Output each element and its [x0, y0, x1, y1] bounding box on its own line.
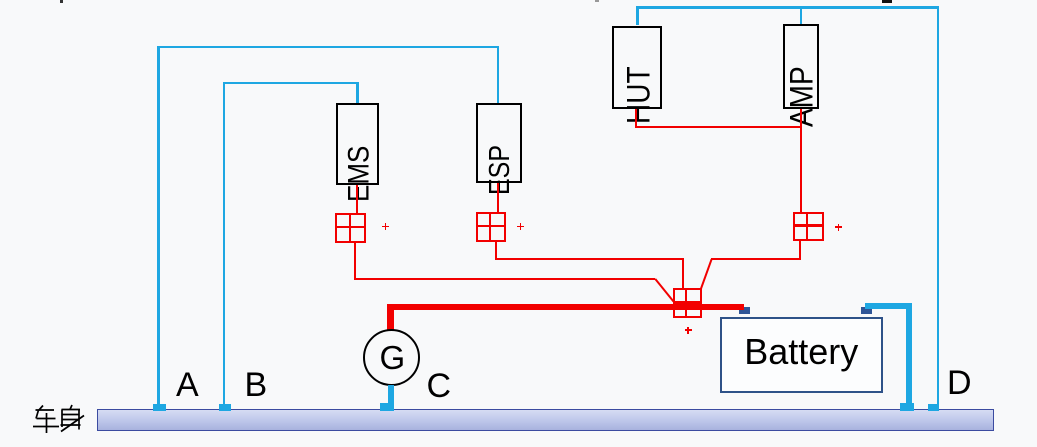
wire diagonal EMS to junction	[655, 279, 673, 302]
wire D horizontal (top bus)	[636, 6, 939, 8]
plus mark F3	[835, 224, 842, 231]
battery plus terminal	[739, 307, 750, 314]
thick red wire vertical to G	[387, 304, 394, 330]
thick cyan wire vertical	[906, 303, 913, 410]
wire F3 horizontal left	[711, 258, 801, 260]
label HUT	[623, 66, 655, 124]
wire D vertical	[937, 6, 939, 404]
wire F2 down	[495, 242, 497, 259]
ground node D pad	[928, 404, 939, 411]
wire C thick vertical	[388, 385, 394, 410]
thick cyan wire from battery minus	[865, 303, 912, 310]
junction fuse F4	[673, 288, 703, 318]
wire F2 drop to junction	[682, 258, 684, 288]
thick red wire horizontal (battery feed)	[387, 304, 744, 310]
wire riser to HUT	[636, 6, 638, 25]
label D	[947, 366, 972, 400]
plus mark F4	[685, 327, 692, 334]
plus mark F2	[517, 223, 524, 230]
fuse F2 (ESP)	[476, 212, 506, 242]
crop mark top-left	[60, 0, 63, 3]
wire HUT to AMP horizontal	[635, 126, 801, 128]
wire B vertical	[223, 82, 225, 405]
crop mark top-middle	[595, 0, 599, 2]
plus mark F1	[382, 223, 389, 230]
box ESP	[476, 103, 522, 183]
box AMP	[783, 24, 820, 109]
battery box	[720, 317, 883, 393]
chassis bar (car body)	[97, 409, 994, 431]
fuse F1 (EMS)	[335, 213, 367, 243]
wire B horizontal	[223, 82, 359, 84]
wire A drop to ESP	[497, 46, 499, 103]
label EMS	[343, 146, 373, 202]
label Battery	[720, 334, 883, 370]
wire F2 horizontal	[495, 258, 684, 260]
wire HUT down	[635, 109, 637, 128]
wire B drop to EMS	[356, 82, 358, 104]
ground node B pad	[219, 404, 231, 411]
ground node C foot	[380, 403, 394, 411]
wire A horizontal	[157, 46, 499, 48]
crop mark top-right	[882, 0, 892, 3]
label G	[380, 341, 406, 374]
label B	[245, 368, 268, 402]
generator G circle	[363, 329, 420, 386]
ground node A pad	[153, 404, 166, 411]
wire F1 down	[354, 243, 356, 279]
wire diagonal AMP to junction	[701, 259, 712, 288]
wire F1 horizontal	[354, 278, 655, 280]
wire ESP to fuse F2	[497, 183, 499, 212]
wire riser to AMP	[800, 6, 802, 24]
wire EMS to fuse F1	[356, 185, 358, 214]
wire F3 down	[799, 241, 801, 260]
label ESP	[486, 145, 515, 195]
ground foot battery	[900, 403, 915, 411]
fuse F3 (AMP)	[793, 212, 824, 241]
label 车身 (car body)	[29, 402, 91, 436]
wire A vertical	[157, 46, 159, 404]
box EMS	[336, 103, 379, 185]
box HUT	[612, 26, 662, 110]
label AMP	[786, 66, 818, 127]
wire AMP down to fuse F3	[800, 109, 802, 213]
label A	[176, 368, 199, 402]
label C	[427, 369, 452, 403]
battery minus terminal	[861, 307, 872, 314]
